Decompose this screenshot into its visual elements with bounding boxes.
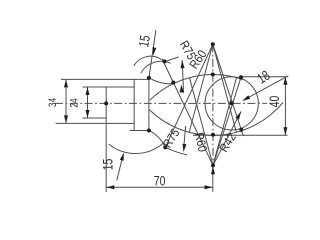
dot D bottom tangency (239, 128, 243, 132)
dot Pt tangency (171, 81, 175, 85)
svg-text:70: 70 (154, 173, 166, 189)
dot on 15 arc (163, 59, 167, 63)
dot O circle center (230, 101, 234, 105)
svg-text:34: 34 (47, 97, 59, 107)
centerline horizontal (55, 102, 267, 104)
dot shaft center (104, 101, 108, 105)
dot D top tangency (239, 75, 243, 79)
arc R75 bottom (center T) (165, 147, 187, 155)
arrow on steep line (152, 47, 156, 55)
dim 70 line (106, 186, 212, 188)
dim 40 line (284, 77, 286, 135)
dot T apex (211, 42, 215, 46)
angular dim arc 15 top b (141, 61, 171, 73)
cone line from B right (213, 78, 237, 166)
leader 15 bottom (117, 155, 123, 181)
tangent line T through O to Dbot (213, 44, 242, 130)
dim 24 line (87, 87, 89, 118)
shaft bottom inner edge (83, 117, 107, 119)
tangent line B through O to Dtop (213, 77, 241, 165)
leader R75 bottom (184, 126, 186, 146)
dot C2a (211, 133, 215, 137)
leader 18 (244, 76, 289, 100)
shaft left edge + extension down (105, 87, 107, 192)
leader R75 top (167, 57, 179, 61)
construction arc bottom-left R42 (109, 143, 163, 153)
radius line B to Pt (162, 59, 213, 165)
dot A flange top (147, 76, 151, 80)
line at A steep (15 dim arm) (149, 30, 156, 78)
cone line from B left (190, 78, 214, 166)
ext line 40 bottom (193, 134, 288, 136)
ball circle R18 (205, 77, 258, 130)
shaft bottom outer edge (56, 122, 135, 124)
dot C1 (211, 73, 215, 77)
arc R60 top (center B) (150, 75, 243, 101)
flange bottom edge (130, 130, 149, 132)
arc neck bottom (to Pb) (149, 130, 165, 147)
arc R60 bottom (center T) (150, 102, 284, 135)
flange left edge (133, 79, 135, 130)
ext line 40 top (241, 76, 288, 78)
radius line T to Pb (165, 44, 213, 147)
dot Pb tangency (163, 145, 167, 149)
cone line from T right (213, 44, 237, 132)
svg-text:24: 24 (68, 98, 80, 108)
flange right edge (148, 79, 150, 130)
extension below B (212, 165, 214, 191)
axis vertical dashed (212, 44, 214, 165)
arc neck top (to Pt) (149, 78, 174, 84)
angular dim arc 15 top a (134, 56, 162, 66)
svg-text:40: 40 (267, 96, 283, 108)
shaft top inner edge (83, 86, 135, 88)
cone line from T left (189, 44, 213, 132)
dim 34 line (65, 79, 67, 123)
arrow up at B (211, 166, 215, 174)
shaft top outer edge (61, 78, 149, 80)
small stroke below Db (240, 130, 244, 136)
dot B apex (211, 163, 215, 167)
dot A2 flange bottom (147, 129, 151, 133)
svg-text:15: 15 (100, 159, 116, 171)
leader R42 from B (213, 112, 241, 166)
